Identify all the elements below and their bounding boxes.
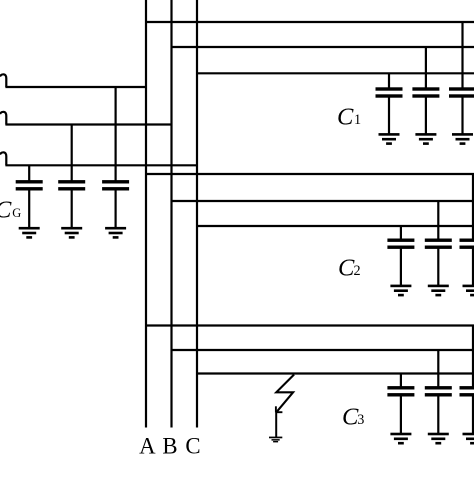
svg-text:G: G — [12, 206, 21, 220]
svg-text:C: C — [338, 255, 355, 282]
svg-text:1: 1 — [354, 112, 361, 128]
svg-text:C: C — [0, 196, 12, 223]
svg-text:2: 2 — [354, 263, 361, 279]
svg-text:C: C — [185, 434, 200, 459]
svg-text:B: B — [162, 434, 177, 459]
svg-text:C: C — [337, 104, 354, 131]
svg-text:A: A — [139, 434, 156, 459]
svg-text:3: 3 — [357, 412, 364, 428]
